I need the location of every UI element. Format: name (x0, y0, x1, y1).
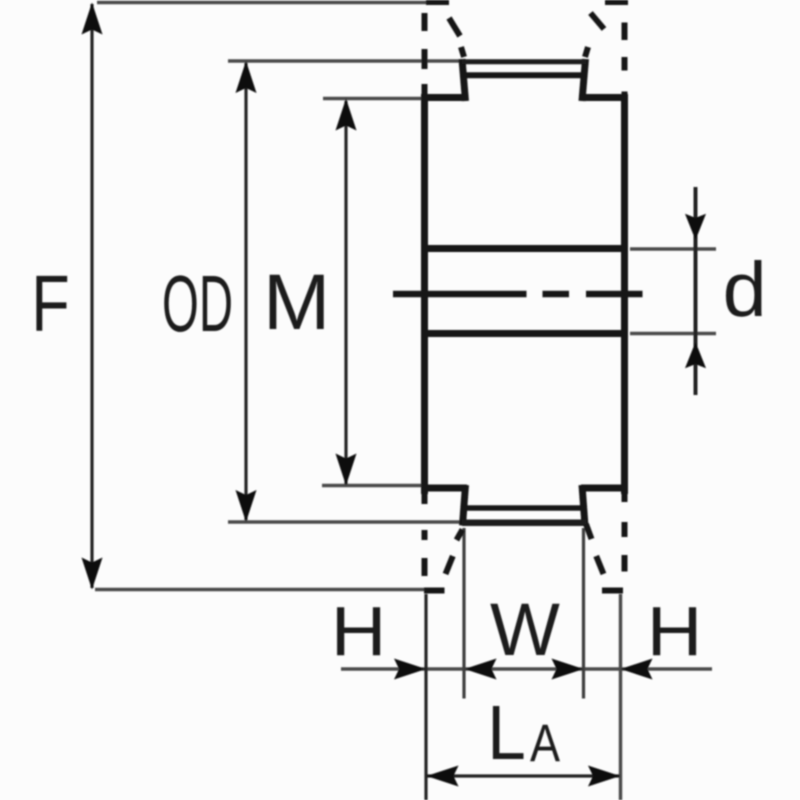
svg-text:L: L (487, 690, 526, 776)
svg-text:H: H (331, 591, 387, 670)
svg-text:W: W (490, 588, 560, 671)
svg-text:M: M (263, 258, 330, 346)
svg-text:H: H (647, 591, 703, 670)
svg-text:d: d (723, 246, 767, 333)
svg-text:F: F (31, 260, 69, 349)
svg-text:OD: OD (162, 258, 233, 348)
svg-text:A: A (530, 714, 560, 773)
